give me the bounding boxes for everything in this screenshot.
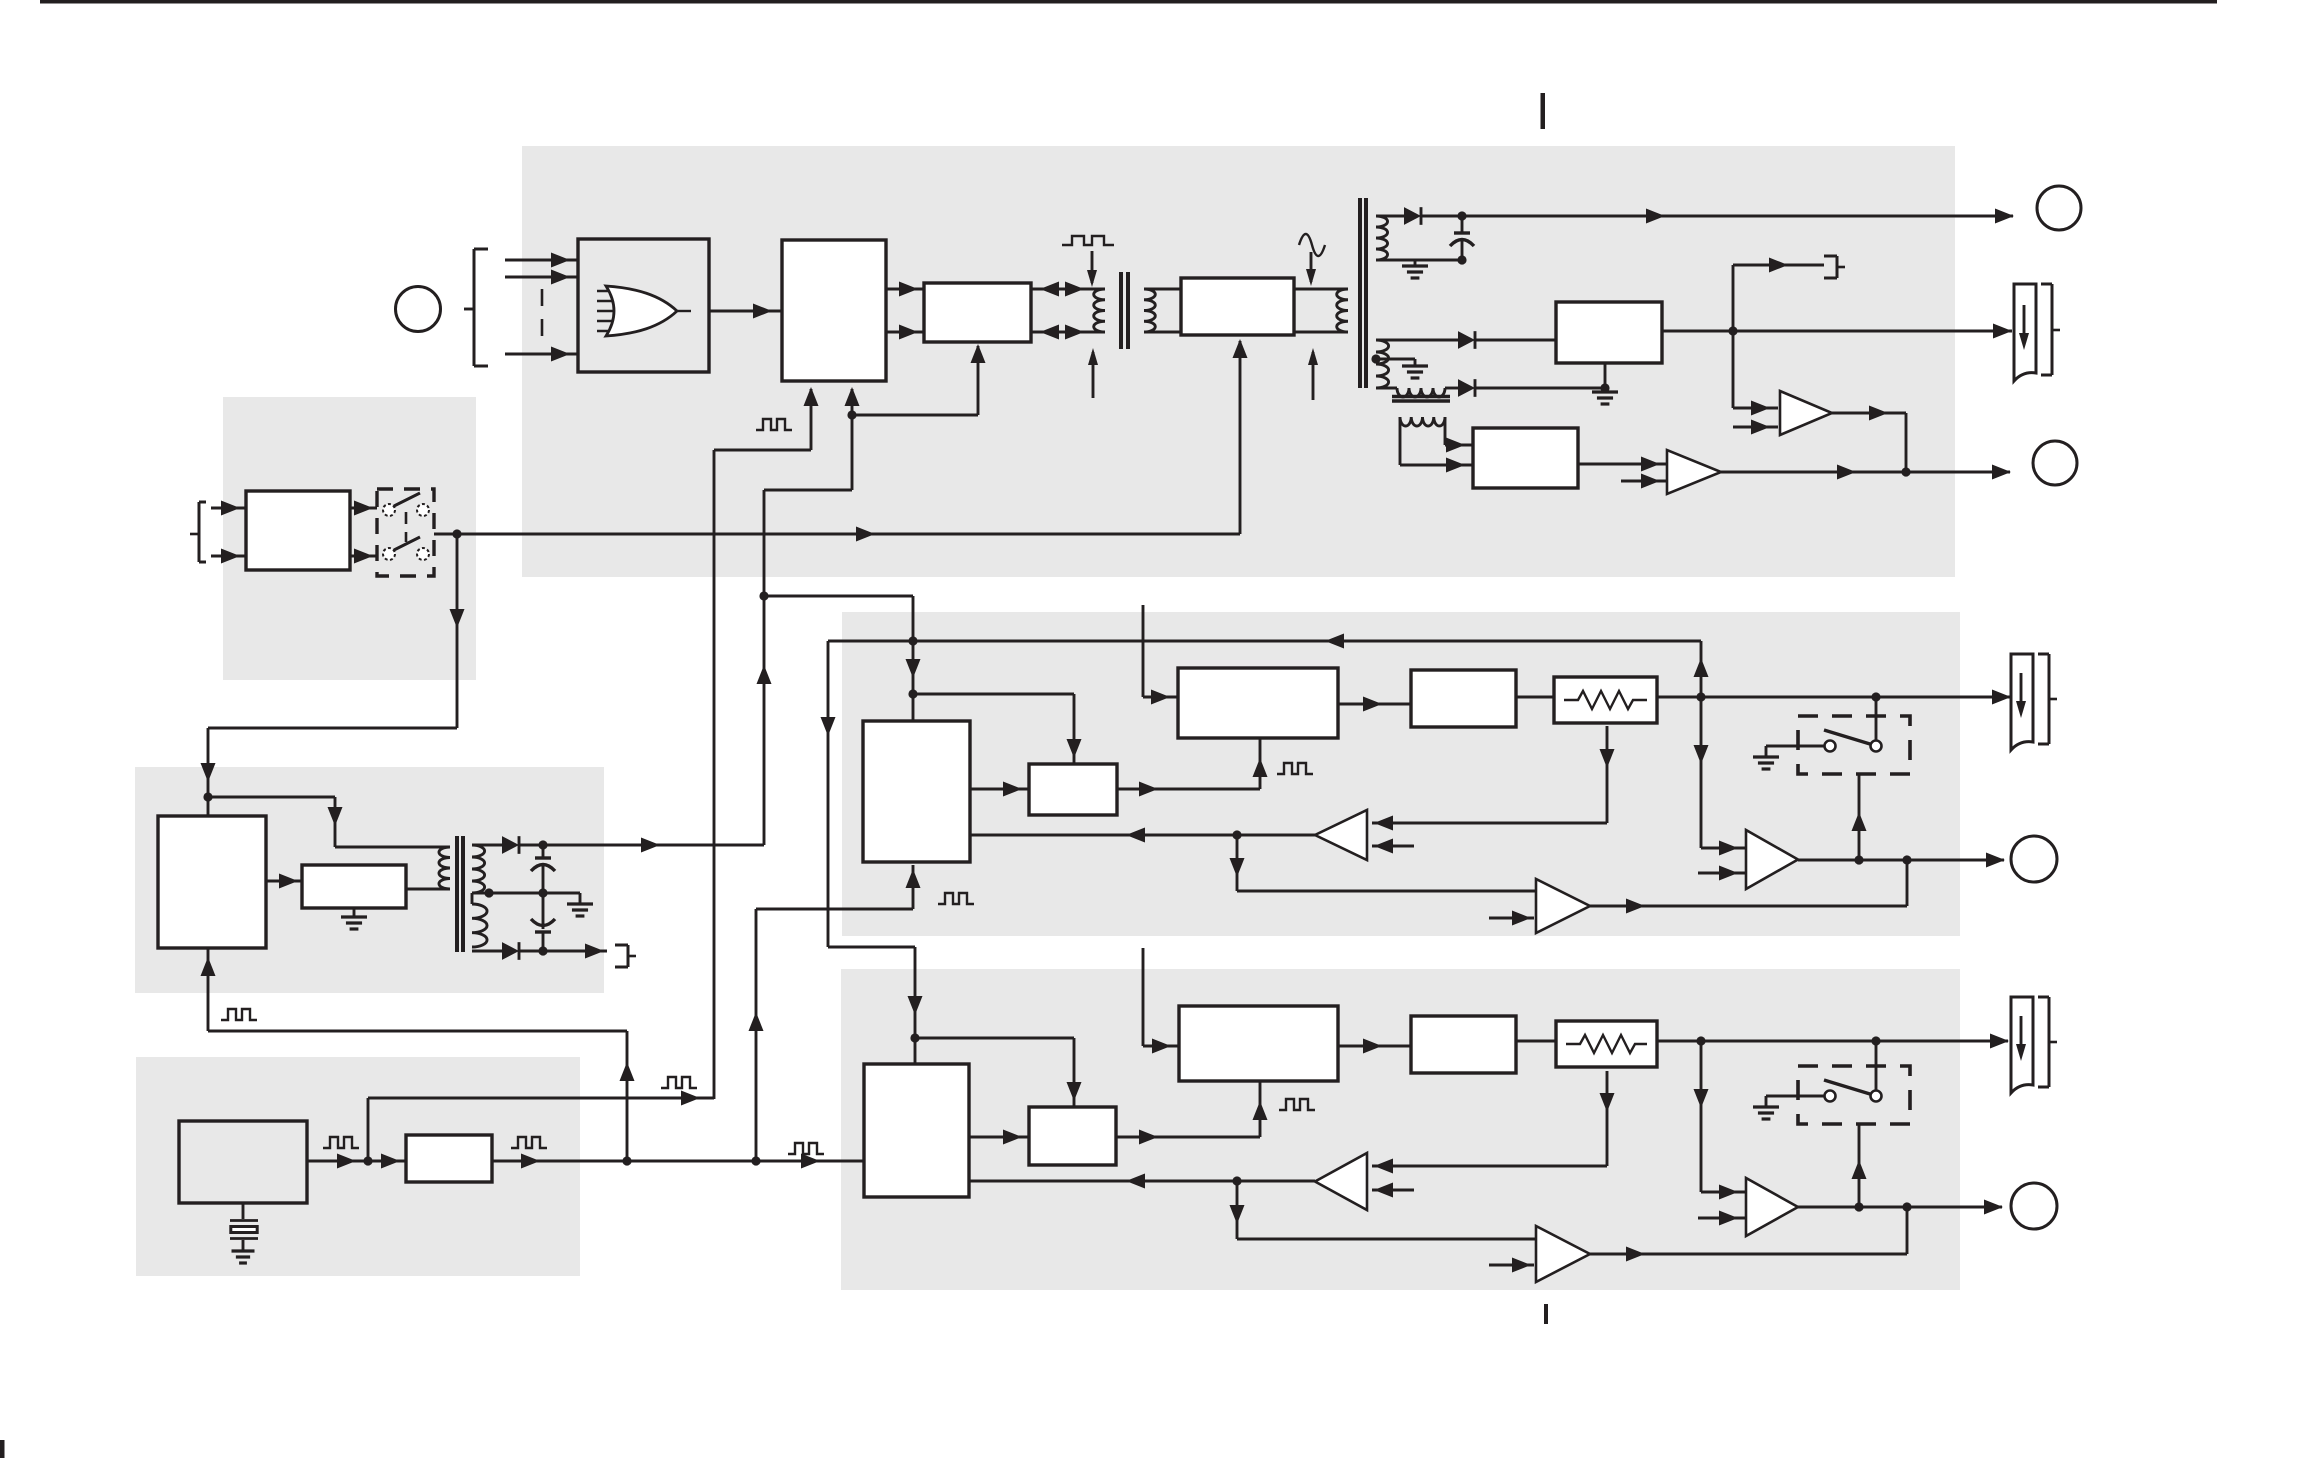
diode D3 bbox=[1458, 379, 1475, 397]
wire: D3 to ground node bbox=[1475, 383, 1610, 392]
wire: AC line 2 into logic box bbox=[505, 270, 578, 285]
wire: U6 feedback from divider line bbox=[201, 948, 628, 1031]
wire: rail down to op-amp A6 bbox=[1694, 1041, 1747, 1200]
op-amp A1 bbox=[1780, 391, 1832, 435]
block: PWM controller U13 lower bbox=[864, 1064, 969, 1197]
transformer T2 main transformer bbox=[1337, 198, 1389, 388]
wire: switch to ground upper bbox=[1753, 746, 1824, 769]
op-amp A4 feedback buffer (left pointing) bbox=[1315, 810, 1367, 860]
diode D5 bbox=[502, 942, 519, 960]
wire: sense drop to lower PWM3 bbox=[821, 641, 923, 1064]
wire: +B output line to connector bbox=[1421, 209, 2014, 224]
wire: A4 branch down to A5 bbox=[1230, 835, 1537, 891]
stub input op-amp A1 bbox=[1733, 420, 1778, 435]
wire: standby VCC riser to U2 and driver bbox=[757, 344, 986, 845]
resistor R1 current sense bbox=[1554, 677, 1657, 723]
block: snubber2 bbox=[302, 865, 406, 908]
wire: oscillator output bbox=[307, 1154, 373, 1169]
wire: divider to PWM2 bottom input bbox=[749, 865, 921, 1161]
probe arrow below T2 primary bottom bbox=[1308, 348, 1318, 400]
wire: A2 output to protect connector bbox=[1721, 465, 2011, 480]
wire: branch to comparator top bbox=[913, 694, 1082, 764]
waveform label: sine bbox=[1299, 234, 1325, 256]
wire: A5 output joins output node bbox=[1590, 860, 1907, 914]
gray panel: upper DC-DC converter section bbox=[842, 612, 1960, 936]
resistor R2 current sense bbox=[1556, 1021, 1657, 1067]
waveform label: osc pulse bbox=[323, 1137, 359, 1148]
wire: regulator2 to sense resistor bbox=[1516, 696, 1554, 699]
probe arrow into T1 primary top bbox=[1087, 251, 1097, 287]
wire: rail down to op-amp A3 bbox=[1694, 697, 1747, 856]
wire: DC bus riser to snubber bbox=[1233, 339, 1248, 534]
wire: osc to main PWM U2 bbox=[368, 387, 819, 1161]
block: error amplifier U11 bbox=[1178, 668, 1338, 738]
wire: osc to divider bbox=[368, 1154, 406, 1169]
diode D1 bbox=[1404, 207, 1421, 225]
regulator ground stem bbox=[1592, 363, 1618, 404]
block: current sense amplifier U5 bbox=[1473, 428, 1578, 488]
waveform label: drive pulse bbox=[1062, 236, 1114, 245]
block: oscillator U7 bbox=[179, 1121, 307, 1203]
stub input A4 bbox=[1372, 839, 1414, 854]
block: series regulator U12 bbox=[1411, 670, 1516, 727]
wire: U9 output to comparator bbox=[970, 782, 1029, 797]
block: linear regulator U4 bbox=[1556, 302, 1662, 363]
block: main PWM controller U2 bbox=[782, 240, 886, 381]
input bracket bbox=[474, 249, 488, 366]
wire: U2 drive output B bbox=[886, 325, 924, 340]
wire: A8 output joins output node lower bbox=[1590, 1207, 1907, 1262]
op-amp A2 bbox=[1667, 450, 1721, 494]
current transformer T3 bbox=[1392, 388, 1450, 465]
wire: AC line N into logic box bbox=[505, 347, 578, 362]
relay: dashed degauss switch lower bbox=[1798, 1066, 1910, 1124]
wire: error amp2 input from above bbox=[1143, 948, 1179, 1054]
relay: dashed degauss switch upper bbox=[1798, 716, 1910, 774]
waveform label: PWM2 clock bbox=[938, 893, 974, 904]
output connector: main B+ circle bbox=[2037, 186, 2081, 230]
wire: mains L into filter bbox=[211, 501, 246, 516]
wire: T2 top secondary lower lead bbox=[1376, 259, 1462, 262]
wire: riser to degauss relay lower bbox=[1852, 1124, 1867, 1207]
wire: divider tap to A4 input bbox=[1372, 726, 1615, 831]
page bottom-left mark bbox=[0, 1440, 5, 1458]
wire: T4 bottom secondary lead bbox=[472, 950, 502, 953]
stub input op-amp A3 bbox=[1698, 866, 1746, 881]
wire: sense riser up to feedback line bbox=[1694, 641, 1709, 697]
wire: error amp to regulator2 bbox=[1338, 697, 1411, 712]
op-amp A6 bbox=[1746, 1178, 1798, 1236]
connector: standby aux tab bbox=[615, 945, 636, 967]
block: series regulator U16 bbox=[1411, 1016, 1516, 1073]
diode D4 bbox=[502, 836, 519, 854]
probe arrow below T1 primary bottom bbox=[1088, 348, 1098, 398]
wire: upper output rail bbox=[1657, 690, 2011, 705]
wire: CT secondary to current amp inputs bbox=[1400, 438, 1473, 473]
wire: diode to regulator bbox=[1475, 339, 1556, 342]
wire: A4 output feedback into U9 bbox=[970, 828, 1315, 843]
gray panel: lower DC-DC converter section bbox=[841, 969, 1960, 1290]
wire: T2 top secondary upper lead bbox=[1376, 215, 1404, 218]
wire: filter to relay 2 bbox=[350, 549, 377, 564]
block: line filter / rectifier bbox=[246, 491, 350, 570]
wire: T2 mid secondary upper lead bbox=[1376, 339, 1458, 342]
wire: divider output bus bbox=[492, 1154, 864, 1169]
transformer T1 drive transformer bbox=[1094, 272, 1181, 349]
wire: T4 top secondary lead bbox=[472, 844, 502, 847]
stub input A8 bbox=[1489, 1258, 1534, 1273]
wire: riser to aux connector bbox=[1733, 258, 1824, 332]
wire: A7 branch down to A8 bbox=[1230, 1181, 1537, 1239]
ground at top secondary bbox=[1402, 260, 1428, 278]
gray panel: oscillator section bbox=[136, 1057, 580, 1276]
waveform label: comparator2 pulse bbox=[1279, 1099, 1315, 1110]
output connector: protect circle bbox=[2033, 441, 2077, 485]
wire: rail to switch contact upper bbox=[1875, 697, 1878, 740]
output connector: battery style with down arrow bbox=[2014, 284, 2060, 381]
waveform label: comparator pulse bbox=[1277, 763, 1313, 774]
wire: filter to relay 1 bbox=[350, 501, 377, 516]
off-page wire mark bottom bbox=[1544, 1304, 1548, 1324]
wire: U13 into comparator2 bbox=[969, 1130, 1029, 1145]
block: input logic U1 with OR gate bbox=[578, 239, 709, 372]
wire: A1 output to output node bbox=[1832, 406, 1906, 473]
wire: T4 center tap bbox=[472, 888, 580, 897]
page top rule bbox=[40, 0, 2217, 4]
wire: snubber to T2 primary leads bbox=[1294, 289, 1348, 332]
snubber2 ground bbox=[341, 908, 367, 929]
tap ground on mid secondary bbox=[1371, 354, 1428, 378]
wire: lower output rail bbox=[1657, 1034, 2009, 1049]
capacitor C3 bbox=[531, 893, 555, 951]
wire: regulator output node bbox=[1662, 324, 2012, 339]
wire: divider feedback riser to U6 bbox=[620, 1031, 635, 1161]
block: error amplifier U15 bbox=[1179, 1006, 1338, 1081]
wire: riser to degauss relay bbox=[1852, 774, 1867, 860]
wire: current amp to op-amp A2 bbox=[1578, 457, 1667, 472]
wire: output sense feedback line upper bbox=[828, 634, 1701, 649]
wire: A6 output to output circle lower bbox=[1798, 1200, 2003, 1215]
block: PWM controller U9 upper bbox=[863, 721, 970, 862]
transformer T4 standby flyback bbox=[439, 836, 487, 952]
output connector: battery style lower bbox=[2011, 997, 2057, 1093]
wire: DC bus down to inverter bbox=[201, 534, 465, 816]
wire: error amp2 to regulator3 bbox=[1338, 1039, 1411, 1054]
gray panel: standby flyback section bbox=[135, 767, 604, 993]
wire: switch to ground lower bbox=[1753, 1096, 1824, 1119]
wire: battery connector feed upper bbox=[0, 0, 1, 1]
wire: VCC branch to PWM2 top bbox=[764, 596, 921, 721]
stub input A7 bbox=[1372, 1183, 1414, 1198]
diode D2 bbox=[1458, 331, 1475, 349]
wire: U6 output to snubber2 bbox=[266, 874, 302, 889]
relay: dashed box with contacts bbox=[377, 489, 434, 576]
block: comparator U14 bbox=[1029, 1107, 1116, 1165]
waveform label: divider pulse bbox=[511, 1137, 547, 1148]
gray panel: mains / primary converter section bbox=[522, 146, 1955, 577]
wire: driver to T1 primary bottom with bidirectional arrows bbox=[1031, 325, 1105, 340]
stub input A5 bbox=[1489, 911, 1534, 926]
block: frequency divider U8 bbox=[406, 1135, 492, 1182]
wire: U2 drive output A bbox=[886, 282, 924, 297]
wire: branch to flyback primary bbox=[208, 797, 450, 847]
op-amp A8 bbox=[1536, 1226, 1590, 1282]
stub input op-amp A2 bbox=[1621, 474, 1667, 489]
output connector: battery style upper bbox=[2011, 654, 2057, 750]
op-amp A7 feedback buffer lower (left pointing) bbox=[1315, 1153, 1367, 1210]
T4 tap ground bbox=[567, 893, 593, 916]
op-amp A5 bbox=[1536, 879, 1590, 933]
output connector: lower rail circle bbox=[2011, 1183, 2057, 1229]
crystal X1 bbox=[230, 1202, 258, 1263]
wire: OR gate output to PWM U2 bbox=[709, 304, 782, 319]
wire: comparator2 to error amp2 bottom bbox=[1116, 1081, 1268, 1145]
waveform label: U6 feedback pulse bbox=[221, 1009, 257, 1020]
block: gate driver U3 bbox=[924, 283, 1031, 342]
block: snubber / coupling network bbox=[1181, 278, 1294, 335]
wire: rail to switch contact lower bbox=[1875, 1041, 1878, 1090]
op-amp A3 bbox=[1746, 830, 1798, 889]
AC input connector J1 bbox=[396, 287, 475, 332]
stub input op-amp A6 bbox=[1698, 1211, 1746, 1226]
gray panel: relay switching section bbox=[223, 397, 476, 680]
wire: A7 output feedback into U13 bbox=[969, 1174, 1315, 1189]
waveform label: PWM3 input pulse bbox=[788, 1143, 824, 1154]
wire: riser down to comparator op-amp bbox=[1733, 331, 1778, 416]
input bracket: AC mains to filter bbox=[190, 502, 206, 562]
wire: AC line 1 into logic box bbox=[505, 253, 578, 268]
block: comparator U10 bbox=[1029, 764, 1117, 815]
capacitor C1 filter bbox=[1450, 216, 1474, 265]
probe arrow into T2 primary top bbox=[1306, 252, 1316, 286]
wire: regulator3 to sense resistor2 bbox=[1516, 1040, 1556, 1043]
output connector: upper rail circle bbox=[2011, 836, 2057, 882]
waveform label: PWM clock pulse bbox=[756, 419, 792, 430]
wire: divider tap to A7 input bbox=[1372, 1071, 1615, 1174]
off-page wire mark top bbox=[1541, 93, 1546, 129]
wire: A3 output to output circle bbox=[1798, 853, 2005, 868]
block: standby inverter / switcher U6 bbox=[158, 816, 266, 948]
wire: standby VCC line bbox=[519, 838, 764, 853]
wire: negative aux output bbox=[519, 944, 607, 959]
wire: snubber2 to flyback primary bottom bbox=[406, 888, 450, 891]
wire: driver to T1 primary top with bidirectional arrows bbox=[1031, 282, 1105, 297]
wire: error amp input from above bbox=[1143, 605, 1178, 705]
capacitor C2 bbox=[531, 845, 555, 898]
wire: comparator to error amp bottom bbox=[1117, 738, 1268, 797]
wire: T2 mid secondary lower lead through current transformer bbox=[1376, 387, 1458, 390]
connector: aux tab bbox=[1824, 256, 1845, 278]
ellipsis dashed mark bbox=[541, 289, 544, 337]
wire: branch to comparator2 top bbox=[915, 1038, 1082, 1107]
wire: relay output main DC bus bbox=[434, 527, 1240, 542]
waveform label: osc pulse 2 bbox=[661, 1077, 697, 1088]
wire: mains N into filter bbox=[211, 549, 246, 564]
